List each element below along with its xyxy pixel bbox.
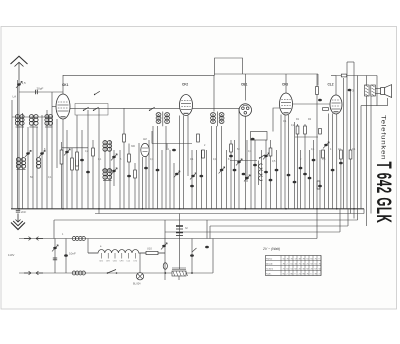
svg-text:Telefunken: Telefunken [380, 115, 386, 160]
wire [148, 140, 150, 209]
wire [81, 130, 83, 209]
svg-text:Röhre: Röhre [266, 257, 273, 260]
svg-text:39: 39 [315, 273, 317, 275]
wire oscillator top link [215, 58, 243, 76]
trimmer padder [111, 168, 117, 175]
wire [261, 150, 263, 209]
junction [62, 208, 64, 210]
svg-text:78: 78 [303, 258, 305, 260]
svg-text:2: 2 [287, 263, 288, 265]
resistor AF coupling [322, 150, 325, 158]
capacitor blob IF [172, 149, 176, 152]
junction [179, 208, 181, 210]
wire AVC line [99, 107, 240, 109]
coil L11 oscillator [107, 141, 111, 152]
junction [244, 208, 246, 210]
wire [27, 127, 29, 209]
wire [71, 148, 73, 209]
wire anode supply top left [63, 75, 214, 111]
svg-text:70: 70 [291, 258, 293, 260]
junction [316, 208, 318, 210]
wire IF link [152, 143, 192, 145]
capacitor blob 10 [269, 179, 273, 182]
wire [178, 276, 180, 280]
wire CF3 anode riser [285, 74, 287, 93]
wire [350, 90, 352, 214]
svg-text:110V: 110V [8, 253, 14, 257]
svg-text:30: 30 [303, 263, 305, 265]
svg-text:20: 20 [299, 268, 301, 270]
ground [11, 214, 25, 230]
capacitor blob 7 [318, 185, 322, 188]
svg-text:17: 17 [295, 258, 297, 260]
capacitor blob 16 [339, 162, 343, 165]
svg-text:82: 82 [307, 268, 309, 270]
resistor bias [71, 158, 74, 170]
resistor decoupling [92, 148, 95, 156]
wire speaker lead bottom [375, 93, 380, 95]
wire [316, 209, 318, 239]
band switch box [251, 132, 268, 141]
wire output stage HT [336, 75, 377, 77]
bus HT negative rail [11, 208, 364, 210]
wire mains line upper [19, 238, 317, 240]
capacitor 4uF box [319, 129, 322, 135]
coil L3 aerial [29, 115, 33, 126]
trimmer oscillator [111, 154, 117, 161]
resistor CF3 anode load [316, 87, 319, 95]
trimmer cathode [64, 149, 70, 156]
wire [36, 127, 38, 209]
capacitor blob 18 [190, 185, 194, 188]
wire [347, 209, 349, 226]
svg-text:78: 78 [283, 263, 285, 265]
connector mains upper [24, 237, 43, 241]
trimmer det [263, 153, 269, 160]
heater tap [128, 253, 130, 259]
wire [328, 114, 330, 209]
svg-text:Anode: Anode [266, 262, 273, 265]
wire top HT rail [215, 73, 319, 75]
wire [62, 119, 64, 209]
junction [353, 208, 355, 210]
lamp dial [136, 273, 143, 280]
resistor AVC [76, 160, 79, 170]
switch bank contacts [259, 164, 263, 181]
resistor AF grid [317, 181, 320, 189]
capacitor blob 8 [348, 89, 352, 92]
resistor IF screen [197, 134, 200, 142]
switch contact wave-band [94, 91, 100, 95]
wire coil link 3 [45, 126, 53, 128]
resistor AVC 2 [76, 152, 79, 166]
wire [234, 140, 236, 209]
antenna [11, 56, 28, 80]
wire [210, 126, 212, 209]
wire [87, 110, 89, 209]
wire [276, 150, 278, 209]
capacitor blob 15 [331, 169, 335, 172]
wire [128, 144, 130, 209]
wire return line 4 [165, 231, 340, 233]
coil L7 long-wave [16, 158, 20, 169]
tube CB1 [239, 104, 251, 116]
wire [316, 74, 318, 209]
wire [173, 163, 175, 209]
coil L12 padder [103, 169, 107, 180]
trimmer hum adjust [161, 243, 167, 250]
wire [300, 150, 302, 209]
wire cathode link [62, 147, 88, 149]
wire [254, 140, 256, 209]
capacitor blob CL2 grid [318, 99, 322, 102]
svg-text:20pF: 20pF [37, 87, 44, 91]
wire [200, 150, 202, 209]
wire antenna to CK1 grid [19, 91, 63, 93]
heater tap [114, 253, 116, 259]
wire [191, 150, 193, 209]
wire [113, 150, 115, 186]
capacitor blob 22 [80, 159, 84, 162]
wire return line 3 [210, 225, 348, 227]
tube tuning indicator [141, 143, 149, 156]
resistor CF3 cathode [304, 126, 307, 134]
capacitor blob 20 [144, 167, 148, 170]
wire CB1 anode riser [244, 74, 246, 101]
wire [366, 96, 368, 226]
wire [179, 116, 181, 209]
wire speaker lead top [375, 88, 380, 90]
coil L4 aerial [34, 115, 38, 126]
heater tap [121, 253, 123, 259]
svg-text:81: 81 [311, 258, 313, 260]
svg-text:70: 70 [319, 263, 321, 265]
wire coil link 5 [103, 180, 112, 182]
wire [123, 108, 125, 209]
wire [343, 78, 345, 209]
tube CF2 [180, 95, 193, 116]
wire aerial coil top link [12, 116, 52, 118]
wire speaker bracket [377, 76, 388, 106]
wire [151, 131, 153, 144]
svg-text:61: 61 [291, 263, 293, 265]
wire [353, 62, 355, 219]
wire [212, 239, 214, 274]
wire [270, 140, 272, 209]
switch mains [107, 270, 118, 274]
capacitor blob 4 [287, 174, 291, 177]
svg-text:67: 67 [315, 268, 317, 270]
junction [142, 208, 144, 210]
heater tap [134, 253, 136, 259]
wire [250, 140, 252, 209]
wire coil link 2 [30, 126, 39, 128]
wire [238, 108, 240, 209]
resistor det 2 [269, 148, 272, 156]
loudspeaker [381, 85, 392, 98]
svg-text:BL 824: BL 824 [133, 283, 141, 286]
svg-text:300: 300 [131, 145, 136, 148]
resistor heater dropper [146, 251, 158, 254]
svg-text:CL2: CL2 [328, 83, 334, 87]
wire CF3 to CL2 link [293, 103, 331, 105]
tube CK1 [56, 94, 70, 119]
wire [104, 140, 106, 209]
wire [258, 161, 260, 186]
resistor det load [230, 144, 233, 152]
resistor IF decoupling [202, 150, 205, 158]
trimmer AF [323, 142, 329, 149]
capacitor 2nF to ground [16, 210, 20, 212]
wire [195, 150, 197, 209]
wire [323, 150, 325, 209]
wire filter branch [65, 239, 67, 274]
capacitor line filter [53, 258, 57, 260]
transformer mains [172, 268, 188, 276]
trimmer IF3 [219, 167, 225, 174]
coil L5 RF [45, 115, 49, 126]
svg-text:86: 86 [291, 273, 293, 275]
capacitor blob 21 [127, 175, 131, 178]
capacitor blob 14 [308, 177, 312, 180]
svg-text:AM: AM [143, 138, 147, 141]
trimmer antenna series [16, 81, 22, 88]
wire [209, 226, 211, 239]
svg-text:50: 50 [319, 268, 321, 270]
wire [119, 150, 121, 209]
wire [66, 130, 68, 209]
svg-text:2: 2 [287, 273, 288, 275]
wire [284, 115, 286, 209]
svg-text:31: 31 [283, 258, 285, 260]
svg-text:CB1: CB1 [241, 83, 248, 87]
wire [346, 62, 348, 209]
svg-text:9: 9 [319, 258, 320, 260]
svg-text:92: 92 [311, 263, 313, 265]
wire [109, 140, 111, 209]
wire [288, 115, 290, 209]
wire mains line lower [19, 272, 213, 274]
wire [76, 115, 78, 209]
coil L6 RF [48, 115, 52, 126]
wire [92, 140, 94, 209]
wire [41, 115, 43, 209]
svg-text:6: 6 [311, 273, 312, 275]
wire return line 2 [54, 219, 358, 221]
transformer IF1 [156, 112, 169, 127]
capacitor blob 19 [199, 175, 203, 178]
wire [183, 116, 185, 209]
resistor oscillator grid [123, 134, 126, 142]
wire [145, 150, 147, 209]
tube CL2 [330, 95, 342, 114]
wire [22, 113, 24, 209]
wire [332, 114, 334, 209]
wire CK1 grid stub [52, 106, 56, 108]
svg-text:30: 30 [303, 268, 305, 270]
wire [206, 220, 208, 239]
wire [187, 116, 189, 177]
trimmer aerial [25, 150, 31, 157]
svg-text:71: 71 [283, 268, 285, 270]
choke mains lower [72, 271, 85, 275]
svg-text:LA: LA [13, 95, 17, 99]
wire [294, 122, 296, 209]
switch HT [192, 248, 197, 252]
capacitor blob 1 [233, 169, 237, 172]
trimmer IF2 [190, 173, 196, 180]
trimmer voltage adjust [52, 245, 58, 252]
wire lamp feed [139, 253, 141, 273]
capacitor blob 17 [229, 155, 233, 158]
wire [134, 163, 136, 209]
capacitor blob CB1 grid [251, 138, 255, 141]
wire [166, 144, 168, 151]
wire [221, 126, 223, 209]
svg-text:1,5: 1,5 [22, 81, 27, 85]
wire [297, 124, 299, 209]
capacitor blob PSU 2 [190, 254, 194, 257]
svg-text:20: 20 [311, 268, 313, 270]
wire [230, 140, 232, 209]
antenna down-lead [18, 80, 20, 209]
junction [336, 208, 338, 210]
capacitor blob 23 [86, 171, 90, 174]
capacitor blob 9 [253, 164, 257, 167]
wire [265, 140, 267, 209]
svg-text:9: 9 [295, 273, 296, 275]
capacitor blob 3 [264, 171, 268, 174]
svg-text:82: 82 [295, 268, 297, 270]
switch contact band 3 [149, 107, 155, 111]
wire [336, 114, 338, 209]
wire [357, 76, 359, 221]
resistor CF3 screen [296, 126, 299, 134]
wire return line 1 [95, 213, 364, 215]
choke mains upper [72, 237, 85, 241]
wire [304, 124, 306, 209]
wire [32, 115, 34, 209]
capacitor blob IF2 [156, 169, 160, 172]
capacitor electrolytic small [163, 263, 167, 270]
table valve data [266, 256, 322, 276]
wire [61, 142, 63, 209]
wire oscillator link [102, 169, 112, 171]
wire [51, 92, 53, 209]
wire [370, 96, 372, 214]
svg-text:CF2: CF2 [182, 83, 188, 87]
wire speaker bracket to ground [361, 105, 377, 107]
capacitor electrolytic 1 [176, 226, 183, 229]
tube CF3 [280, 93, 293, 115]
svg-text:10nF: 10nF [69, 252, 76, 256]
junction [191, 272, 193, 274]
heater tap [100, 253, 102, 259]
resistor grid leak [128, 154, 131, 162]
wire smoothing branch [179, 214, 181, 270]
capacitor blob 2 [242, 173, 246, 176]
junction [98, 208, 100, 210]
wire dropper branch [54, 239, 56, 274]
svg-text:95: 95 [283, 273, 285, 275]
wire [363, 209, 365, 214]
capacitor electrolytic 2 [176, 233, 183, 236]
wire [313, 140, 315, 209]
svg-text:4: 4 [319, 273, 320, 275]
svg-text:98: 98 [303, 273, 305, 275]
svg-text:76: 76 [307, 273, 309, 275]
wire [17, 80, 19, 209]
wire [244, 116, 246, 209]
svg-text:21: 21 [299, 273, 301, 275]
wire [280, 115, 282, 209]
svg-text:U10: U10 [147, 247, 152, 251]
svg-text:76: 76 [287, 258, 289, 260]
switch box CK1 [75, 104, 108, 116]
resistor CL2 grid [340, 150, 343, 159]
capacitor blob 5 [303, 173, 307, 176]
wire [246, 140, 248, 182]
wire [11, 100, 13, 209]
wire [152, 126, 154, 209]
coil L10 oscillator [103, 141, 107, 152]
svg-text:51: 51 [291, 268, 293, 270]
wire transformer primary top [366, 76, 368, 86]
wire [157, 126, 159, 209]
wire riser to R [317, 74, 319, 86]
capacitor blob 12 [293, 181, 297, 184]
svg-text:75: 75 [315, 258, 317, 260]
wire [216, 126, 218, 209]
wire coil link 4 [17, 169, 26, 171]
capacitor 20pF antenna coupling [36, 90, 38, 94]
wire [360, 106, 362, 209]
resistor cathode CK1 [60, 150, 63, 164]
wire [161, 150, 163, 209]
svg-text:Schirm: Schirm [266, 267, 273, 270]
trimmer det 2 [244, 175, 250, 182]
wire [165, 126, 167, 209]
resistor CL2 grid stopper [323, 108, 329, 111]
junction [18, 208, 20, 210]
wire [226, 150, 228, 209]
svg-text:Kath.: Kath. [266, 272, 271, 275]
capacitor blob 6 [312, 159, 316, 162]
trimmer RF [39, 150, 45, 157]
switch contact band 2 [93, 107, 99, 111]
wire [53, 220, 55, 239]
transformer IF2 [211, 112, 224, 127]
svg-text:48: 48 [299, 258, 301, 260]
switch contact gram [259, 155, 265, 159]
coil L9 oscillator [36, 158, 40, 169]
wire CF3 screen link [295, 136, 318, 138]
wire [46, 110, 48, 209]
capacitor blob 11 [275, 169, 279, 172]
heater tap [107, 253, 109, 259]
capacitor blob PSU [205, 246, 209, 249]
wire [191, 239, 193, 274]
wire [56, 119, 58, 168]
svg-text:61: 61 [315, 263, 317, 265]
wire [340, 150, 342, 209]
wire [98, 108, 100, 213]
wire CK1 anode out [70, 107, 99, 109]
svg-text:61: 61 [307, 258, 309, 260]
resistor screen [134, 170, 137, 178]
svg-text:2V ~ (Watt): 2V ~ (Watt) [262, 247, 280, 251]
wire CL2 anode riser [335, 76, 337, 96]
